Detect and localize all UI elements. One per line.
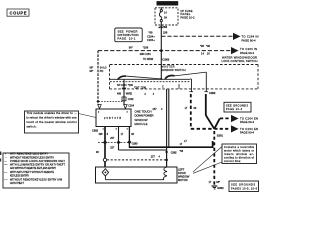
- svg-text:257: 257: [151, 156, 156, 159]
- svg-text:TO C264 IN: TO C264 IN: [240, 47, 257, 51]
- svg-text:C264◂: C264◂: [147, 38, 155, 42]
- svg-text:25B737B: 25B737B: [104, 117, 121, 120]
- svg-text:C263: C263: [132, 142, 138, 145]
- svg-text:PAGE 90-4: PAGE 90-4: [242, 38, 257, 42]
- svg-text:98*: 98*: [216, 180, 220, 184]
- svg-text:498: 498: [117, 92, 122, 95]
- svg-text:SEE GROUNDS: SEE GROUNDS: [226, 104, 248, 107]
- svg-text:-·-·: -·-·: [4, 171, 7, 174]
- svg-text:PAGE 90-4: PAGE 90-4: [240, 51, 255, 55]
- svg-text:SEE GROUNDS: SEE GROUNDS: [231, 183, 255, 186]
- svg-text:PAGE 90-4: PAGE 90-4: [240, 131, 255, 135]
- svg-text:ly retract the driver's window: ly retract the driver's window with one: [27, 116, 78, 120]
- svg-text:PAGE 10-1: PAGE 10-1: [118, 36, 137, 40]
- svg-text:*98: *98: [149, 30, 153, 34]
- svg-text:SP C264 *296: SP C264 *296: [117, 84, 133, 87]
- svg-text:ANTI-THEFT: ANTI-THEFT: [10, 182, 25, 185]
- svg-text:C202: C202: [128, 98, 134, 101]
- svg-text:PAGES 10-5, 10-6: PAGES 10-5, 10-6: [231, 187, 258, 190]
- svg-text:A/W WITHOUT REMOTE KEYLESS ENT: A/W WITHOUT REMOTE KEYLESS ENTRY: [10, 167, 56, 170]
- svg-text:TO WDW: TO WDW: [143, 58, 154, 61]
- svg-text:G302: G302: [217, 186, 224, 190]
- svg-text:COUPE: COUPE: [10, 11, 27, 16]
- svg-text:current flow.: current flow.: [224, 160, 241, 163]
- svg-text:PD: PD: [100, 70, 104, 73]
- svg-text:298: 298: [163, 30, 168, 34]
- svg-text:DISTRIBUTION: DISTRIBUTION: [118, 33, 139, 37]
- svg-text:SEE POWER: SEE POWER: [118, 29, 138, 33]
- svg-text:C262: C262: [92, 129, 99, 133]
- svg-text:257: 257: [110, 137, 115, 140]
- svg-text:PANEL: PANEL: [181, 12, 192, 16]
- svg-text:5A: 5A: [164, 16, 167, 19]
- svg-text:MODULE: MODULE: [135, 122, 148, 126]
- svg-text:WITH ANTI-THEFT WITHOUT REMOTE: WITH ANTI-THEFT WITHOUT REMOTE: [10, 171, 54, 174]
- svg-text:C264: C264: [128, 105, 134, 108]
- svg-text:TO C264 IN: TO C264 IN: [242, 34, 259, 38]
- svg-text:DOOR: DOOR: [178, 171, 186, 175]
- svg-text:▴C262: ▴C262: [158, 25, 168, 29]
- svg-text:C: C: [162, 85, 164, 88]
- svg-text:LEFT: LEFT: [178, 167, 185, 171]
- svg-text:MOTOR: MOTOR: [178, 178, 188, 182]
- svg-text:WINDOW: WINDOW: [178, 174, 190, 178]
- svg-text:This module enables the driver: This module enables the driver to ...: [27, 111, 77, 115]
- svg-text:WIRE: WIRE: [126, 92, 133, 95]
- svg-text:498: 498: [99, 133, 104, 136]
- svg-text:switch.: switch.: [27, 125, 37, 129]
- svg-text:•: •: [5, 153, 6, 156]
- svg-text:C262: C262: [209, 91, 216, 95]
- svg-text:TO C264 EN: TO C264 EN: [240, 127, 258, 131]
- svg-text:257: 257: [110, 146, 115, 149]
- svg-text:14 16: 14 16: [201, 52, 210, 56]
- svg-text:PAGE 10-4: PAGE 10-4: [226, 108, 243, 111]
- svg-text:PAGE 10-2: PAGE 10-2: [181, 16, 196, 20]
- svg-text:-··-: -··-: [4, 179, 7, 182]
- svg-text:*297 *298: *297 *298: [134, 85, 146, 89]
- svg-text:S201: S201: [217, 133, 224, 137]
- svg-text:*98 *96: *98 *96: [200, 44, 211, 48]
- svg-text:96*: 96*: [90, 70, 94, 73]
- svg-text:MASTER: MASTER: [162, 65, 175, 69]
- svg-text:----: ----: [4, 163, 7, 166]
- svg-text:WATER WINDOW/DOOR: WATER WINDOW/DOOR: [222, 56, 257, 60]
- svg-text:*298: *298: [143, 45, 149, 49]
- svg-text:C264◂: C264◂: [147, 35, 155, 39]
- svg-text:I/P FUSE: I/P FUSE: [181, 9, 193, 13]
- svg-text:HOT AT ALL TIMES: HOT AT ALL TIMES: [158, 2, 177, 6]
- svg-text:C262: C262: [171, 152, 177, 155]
- svg-text:LOCK CONTROL SWITCH: LOCK CONTROL SWITCH: [222, 59, 258, 63]
- svg-text:PAGE 90-4: PAGE 90-4: [240, 120, 255, 124]
- svg-text:WITH REMOTE/KEYLESS ENTRY: WITH REMOTE/KEYLESS ENTRY: [10, 153, 48, 156]
- svg-text:498 C264: 498 C264: [140, 52, 152, 56]
- svg-text:touch of the master window con: touch of the master window control: [27, 120, 77, 124]
- svg-text:WITHOUT REMOTE/KEYLESS ENTRY A: WITHOUT REMOTE/KEYLESS ENTRY A/W: [10, 179, 63, 182]
- svg-text:C262: C262: [162, 57, 169, 61]
- svg-text:KEYLESS ENTRY: KEYLESS ENTRY: [10, 174, 29, 177]
- svg-text:TO C264 EN: TO C264 EN: [240, 116, 258, 120]
- svg-text:WINDOW SWITCH: WINDOW SWITCH: [162, 68, 186, 72]
- svg-text:96*: 96*: [129, 45, 133, 49]
- svg-text:257: 257: [153, 108, 158, 111]
